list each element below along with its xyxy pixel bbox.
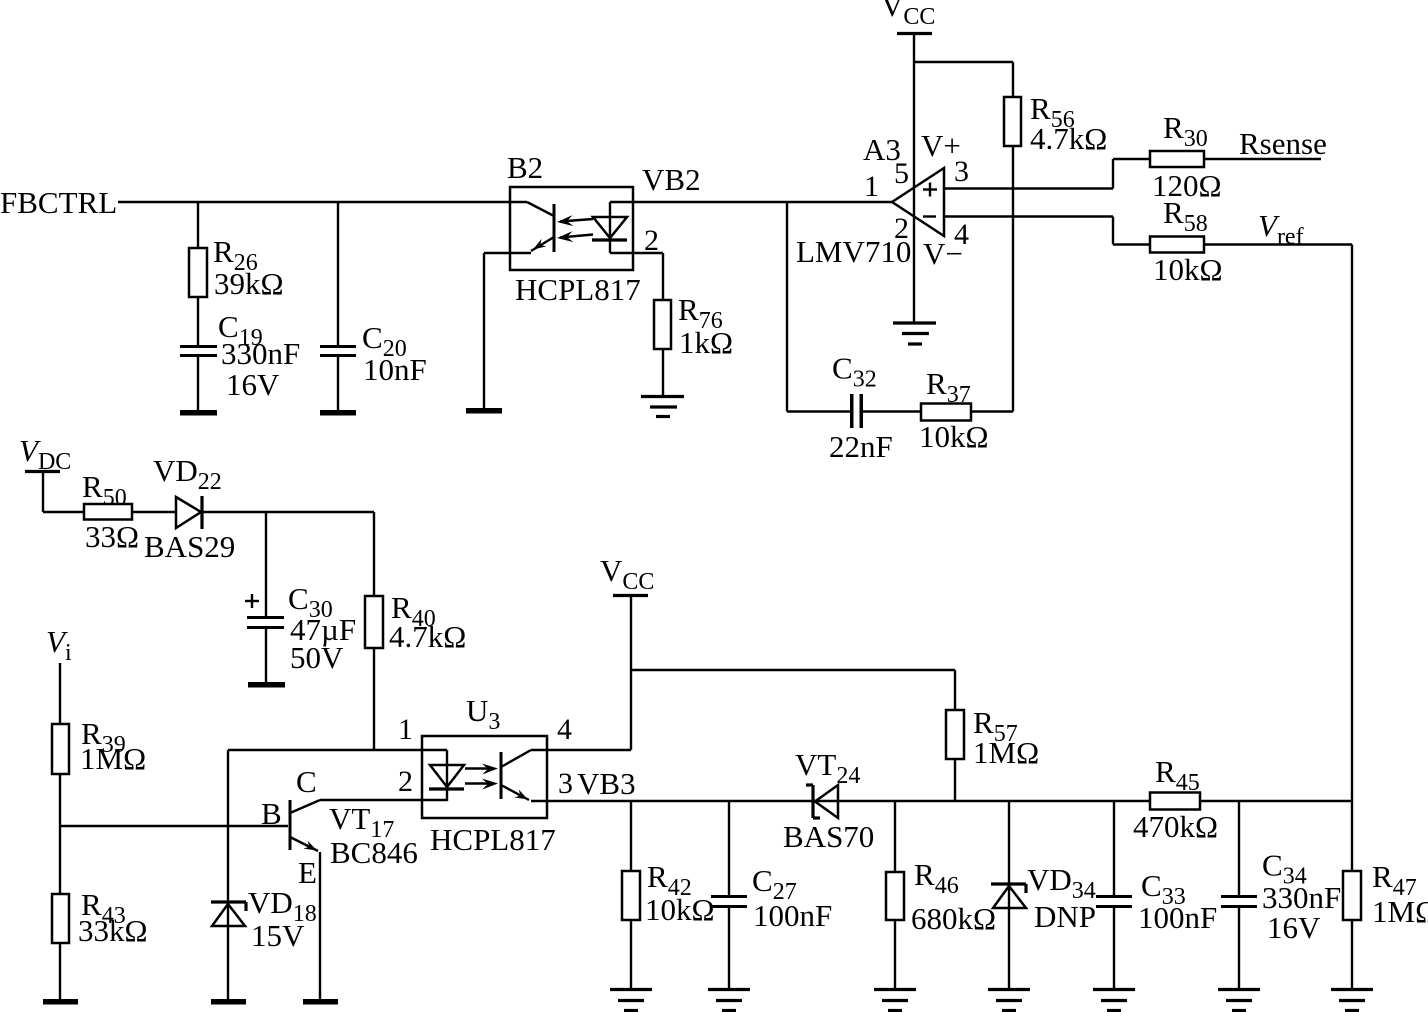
B2 phototransistor xyxy=(527,202,554,216)
svg-text:1: 1 xyxy=(864,170,879,203)
svg-text:100nF: 100nF xyxy=(1138,900,1217,935)
svg-text:1kΩ: 1kΩ xyxy=(679,325,733,360)
svg-text:10kΩ: 10kΩ xyxy=(1153,252,1223,287)
svg-text:VD34: VD34 xyxy=(1027,862,1096,904)
resistor R46 xyxy=(894,801,896,872)
resistor R58 xyxy=(1150,237,1204,253)
svg-text:330nF: 330nF xyxy=(221,336,300,371)
svg-text:15V: 15V xyxy=(251,918,305,953)
optocoupler B2 HCPL817 box xyxy=(510,187,633,270)
capacitor C19 xyxy=(180,345,217,348)
svg-text:470kΩ: 470kΩ xyxy=(1133,809,1218,844)
svg-text:16V: 16V xyxy=(226,367,280,402)
resistor R76 xyxy=(654,300,671,349)
svg-text:22nF: 22nF xyxy=(829,429,893,464)
wire U3 pin4 to VCC xyxy=(531,749,631,751)
wire VCC to R56 xyxy=(914,61,1013,63)
svg-text:16V: 16V xyxy=(1267,910,1321,945)
resistor R50 xyxy=(84,504,132,520)
svg-text:5: 5 xyxy=(894,157,909,190)
svg-text:39kΩ: 39kΩ xyxy=(214,266,284,301)
svg-text:VCC: VCC xyxy=(881,0,935,30)
resistor R45 xyxy=(1150,793,1200,810)
op-amp U A3 LMV710 xyxy=(892,168,944,236)
svg-text:VB3: VB3 xyxy=(577,766,636,801)
svg-text:VB2: VB2 xyxy=(642,162,701,197)
diode VD22 BAS29 xyxy=(176,497,201,528)
ground R42 xyxy=(610,988,652,991)
resistor R42 xyxy=(630,801,632,871)
svg-text:1MΩ: 1MΩ xyxy=(973,735,1039,770)
svg-text:2: 2 xyxy=(398,765,413,798)
U3 LED xyxy=(446,750,448,801)
svg-text:C32: C32 xyxy=(832,351,877,393)
svg-text:B: B xyxy=(261,796,282,831)
svg-text:1MΩ: 1MΩ xyxy=(1372,894,1428,929)
wire diode to R40 xyxy=(203,511,374,513)
wire B2 pin2 to R76 xyxy=(610,252,663,254)
ground R76 xyxy=(641,395,684,398)
ground B2 emitter xyxy=(466,408,502,414)
svg-text:680kΩ: 680kΩ xyxy=(911,901,996,936)
ground R46 xyxy=(874,988,916,991)
svg-text:33Ω: 33Ω xyxy=(85,519,139,554)
svg-text:BAS70: BAS70 xyxy=(783,819,874,854)
svg-text:1: 1 xyxy=(398,713,413,746)
svg-text:10nF: 10nF xyxy=(363,352,427,387)
svg-text:33kΩ: 33kΩ xyxy=(78,913,148,948)
ground op-amp V- xyxy=(893,321,936,324)
svg-text:FBCTRL: FBCTRL xyxy=(0,185,117,220)
svg-text:DNP: DNP xyxy=(1034,899,1096,934)
svg-text:50V: 50V xyxy=(290,640,344,675)
B2 LED xyxy=(609,202,611,253)
svg-text:4: 4 xyxy=(954,218,969,251)
svg-text:C: C xyxy=(296,764,317,799)
U3 phototransistor xyxy=(500,752,503,799)
wire Vref down right side xyxy=(1351,245,1353,872)
wire U3 pin1 row xyxy=(228,749,447,751)
svg-text:10kΩ: 10kΩ xyxy=(919,419,989,454)
svg-text:VT24: VT24 xyxy=(795,747,860,789)
ground C20 xyxy=(320,410,356,416)
op-amp minus mark xyxy=(923,215,936,217)
svg-text:4.7kΩ: 4.7kΩ xyxy=(1030,121,1107,156)
wire base xyxy=(60,825,288,827)
wire op-amp minus input xyxy=(944,215,1113,217)
svg-text:4.7kΩ: 4.7kΩ xyxy=(389,619,466,654)
svg-text:VDC: VDC xyxy=(19,433,71,475)
svg-text:4: 4 xyxy=(557,713,572,746)
capacitor C27 xyxy=(728,801,730,895)
ground C34 xyxy=(1218,988,1260,991)
capacitor C34 xyxy=(1238,801,1240,895)
svg-text:3: 3 xyxy=(558,767,573,800)
svg-text:R45: R45 xyxy=(1155,754,1200,796)
resistor R37 xyxy=(921,404,971,421)
zener VD34 DNP xyxy=(1008,801,1010,988)
capacitor C30 xyxy=(265,512,267,616)
wire emitter to ground xyxy=(319,852,321,999)
resistor R40 xyxy=(365,596,383,648)
svg-text:VD22: VD22 xyxy=(153,453,222,495)
U3 light arrows xyxy=(465,767,494,769)
wire VD18 branch xyxy=(227,750,229,999)
ground R47 xyxy=(1331,988,1373,991)
zener VD18 15V xyxy=(211,900,246,903)
wire feedback from output xyxy=(786,202,788,412)
svg-text:VCC: VCC xyxy=(600,553,654,595)
capacitor C33 xyxy=(1113,801,1115,895)
resistor R47 xyxy=(1343,871,1361,920)
ground VD18 xyxy=(211,999,246,1005)
ground C30 xyxy=(248,682,285,688)
transistor VT17 BC846 xyxy=(289,800,292,850)
svg-text:HCPL817: HCPL817 xyxy=(430,822,556,857)
resistor R30 xyxy=(1150,151,1204,167)
wire VCC rail through op-amp xyxy=(913,35,915,322)
ground C19 xyxy=(180,410,217,416)
resistor R57 xyxy=(946,710,964,759)
resistor R26 xyxy=(197,202,199,248)
ground C27 xyxy=(708,988,750,991)
svg-text:HCPL817: HCPL817 xyxy=(515,272,641,307)
ground VT17 emitter xyxy=(303,999,338,1005)
svg-text:R30: R30 xyxy=(1163,110,1208,152)
ground VD34 xyxy=(988,988,1030,991)
capacitor C32 xyxy=(850,394,854,428)
diode VT24 BAS70 xyxy=(815,785,838,818)
ground R43 xyxy=(43,999,78,1005)
B2 light arrows xyxy=(560,219,593,222)
resistor R56 xyxy=(1004,97,1021,146)
wire collector to U3 pin2 xyxy=(320,799,447,801)
svg-text:U3: U3 xyxy=(466,693,500,735)
op-amp plus mark xyxy=(923,188,937,190)
svg-text:2: 2 xyxy=(894,212,909,245)
svg-text:R46: R46 xyxy=(914,857,959,899)
svg-text:Rsense: Rsense xyxy=(1239,126,1327,161)
wire op-amp plus input xyxy=(944,187,1113,189)
svg-text:3: 3 xyxy=(954,155,969,188)
optocoupler U3 HCPL817 box xyxy=(422,736,547,818)
svg-text:BC846: BC846 xyxy=(330,835,418,870)
wire VDC row xyxy=(43,511,84,513)
svg-text:R37: R37 xyxy=(926,366,971,408)
svg-text:100nF: 100nF xyxy=(753,898,832,933)
resistor R43 xyxy=(52,894,69,943)
svg-text:1MΩ: 1MΩ xyxy=(80,741,146,776)
svg-text:10kΩ: 10kΩ xyxy=(645,892,715,927)
capacitor C20 xyxy=(337,202,339,345)
wire FBCTRL input xyxy=(118,201,527,203)
resistor R39 xyxy=(52,724,69,774)
svg-text:Vi: Vi xyxy=(46,624,72,666)
wire B2 emitter to ground xyxy=(484,252,531,254)
wire VB2 xyxy=(610,201,893,203)
wire Vi divider xyxy=(59,663,61,724)
svg-text:B2: B2 xyxy=(507,150,543,185)
svg-text:BAS29: BAS29 xyxy=(144,529,235,564)
wire VCC branch to R57 xyxy=(631,669,955,671)
wire VB3 rail xyxy=(531,800,1150,802)
ground C33 xyxy=(1093,988,1135,991)
svg-text:E: E xyxy=(298,855,317,890)
